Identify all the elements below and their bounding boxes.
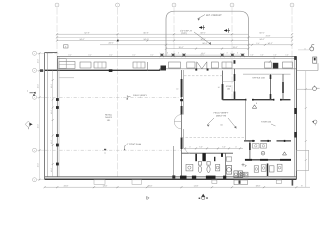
marker triangle 3 <box>283 152 287 155</box>
svg-text:30'-0": 30'-0" <box>200 38 205 41</box>
svg-text:4" CONC SLAB: 4" CONC SLAB <box>127 143 142 146</box>
vestibule fixture box <box>58 59 66 69</box>
svg-text:B: B <box>34 69 35 72</box>
elevation marker 2 <box>313 120 317 124</box>
left wall pilaster 5 <box>56 163 59 166</box>
canopy keynote arrow 1 <box>199 27 205 29</box>
svg-text:30'-0": 30'-0" <box>37 83 40 88</box>
floor drain box <box>239 171 243 178</box>
top wall second line <box>57 58 296 60</box>
window W7 <box>211 62 218 68</box>
br wall y160 darks <box>245 159 252 161</box>
canopy column 4 <box>221 54 224 57</box>
br fixture 1 <box>254 166 258 172</box>
bottom stoop box mid 3 <box>276 180 281 183</box>
svg-text:24'-0": 24'-0" <box>259 38 264 41</box>
interior wall main vertical <box>181 70 183 177</box>
svg-text:E: E <box>34 178 35 181</box>
grid bubble A <box>33 51 37 55</box>
br wall y141 <box>244 140 291 142</box>
restroom dim row <box>183 147 243 149</box>
br fixture 4 <box>277 164 282 171</box>
double door to retail <box>174 115 181 130</box>
mop sink <box>234 171 238 178</box>
bottom dim row 1 <box>45 186 310 188</box>
top wall jamb block <box>109 69 113 72</box>
right sidewalk line <box>305 71 307 187</box>
svg-text:24'-0": 24'-0" <box>79 38 84 41</box>
svg-text:5'-4": 5'-4" <box>256 42 260 45</box>
left keynote flag 2 <box>25 121 31 127</box>
svg-text:DIM (TYP): DIM (TYP) <box>216 114 227 117</box>
svg-text:24'-0": 24'-0" <box>108 42 113 45</box>
bottom stoop box mid 1 <box>212 180 217 183</box>
right leader line 1 <box>296 88 312 90</box>
bottom wall outer face <box>45 178 297 180</box>
toilet left <box>198 162 201 166</box>
bottom wall end tick <box>292 180 294 186</box>
br partition <box>267 164 269 177</box>
canopy outline <box>166 11 249 56</box>
window W1 <box>59 62 75 69</box>
left wall cavity line <box>46 53 48 177</box>
svg-text:SALES: SALES <box>105 116 112 119</box>
br wall x250 <box>249 141 251 160</box>
keynote T box <box>64 45 69 48</box>
left wall top jog <box>45 52 58 54</box>
toilet right <box>207 162 210 166</box>
br wall y160 <box>245 159 291 161</box>
canopy column 5 <box>231 54 234 57</box>
svg-text:(TYP): (TYP) <box>181 32 187 35</box>
svg-text:4: 4 <box>232 4 233 7</box>
svg-text:58'-0": 58'-0" <box>202 42 207 45</box>
grid line 4 <box>231 8 233 100</box>
restroom lav left <box>186 164 193 171</box>
bottom wall inner face <box>45 176 297 178</box>
right wall thick segment 2 <box>294 132 297 138</box>
grid bubble E <box>33 178 37 182</box>
canopy column 1 <box>161 54 164 57</box>
svg-text:2: 2 <box>117 4 118 7</box>
bottom stoop box mid 2 <box>234 180 247 185</box>
office front line <box>243 73 291 75</box>
svg-text:30'-0": 30'-0" <box>37 58 40 63</box>
canopy column 2 <box>172 54 175 57</box>
top right circle flag <box>310 47 314 51</box>
svg-text:8': 8' <box>167 51 169 54</box>
left wall furring line <box>58 56 60 177</box>
br jambs <box>252 140 254 142</box>
svg-text:12'-6": 12'-6" <box>50 167 53 172</box>
window W3 <box>94 62 106 68</box>
grid line 1 <box>56 8 58 57</box>
dimension line top row 2 <box>57 36 292 38</box>
svg-text:24'-0": 24'-0" <box>143 38 148 41</box>
svg-text:D: D <box>34 149 36 152</box>
elevation marker 1 <box>313 87 317 91</box>
svg-text:STOR: STOR <box>226 85 232 88</box>
north marker <box>201 194 205 197</box>
grid bubble 4 <box>230 3 234 7</box>
restroom jamb 3 <box>221 153 223 157</box>
svg-text:30'-0": 30'-0" <box>37 162 40 167</box>
canopy keynote arrow 2 <box>224 30 230 32</box>
svg-text:18'-0": 18'-0" <box>256 184 261 187</box>
svg-text:OFFICE 103: OFFICE 103 <box>252 77 265 80</box>
dimension line canopy width <box>100 44 292 46</box>
window W6 <box>187 62 195 68</box>
bottom door stoop 1 <box>94 180 105 185</box>
grid bubble 2 <box>116 3 120 7</box>
svg-text:56'-8": 56'-8" <box>143 31 148 34</box>
restroom lav right <box>216 164 220 171</box>
svg-text:12'-6": 12'-6" <box>50 83 53 88</box>
grid line B <box>37 69 45 71</box>
svg-text:13'-0": 13'-0" <box>232 46 237 49</box>
svg-text:8': 8' <box>227 51 229 54</box>
svg-text:12'-6": 12'-6" <box>50 139 53 144</box>
restroom top wall <box>182 152 234 154</box>
br fixture 3 <box>269 166 274 172</box>
br counter <box>253 144 260 149</box>
left interior dim string <box>52 71 54 177</box>
entry door jamb blocks <box>195 68 197 70</box>
svg-text:30'-0": 30'-0" <box>37 123 40 128</box>
svg-text:5: 5 <box>292 4 293 7</box>
grid bubble 5 <box>290 3 294 7</box>
top wall inner face thick <box>45 69 160 71</box>
svg-text:RETAIL: RETAIL <box>105 114 113 117</box>
small marker bottom right <box>147 197 150 200</box>
right stoop outline <box>296 70 318 72</box>
svg-text:EF: EF <box>262 152 264 155</box>
bottom door stoop 2 <box>132 180 142 185</box>
corridor wall horizontal <box>223 99 291 101</box>
left wall pilaster 4 <box>56 144 59 147</box>
svg-text:10: 10 <box>176 87 178 90</box>
svg-text:62'-8": 62'-8" <box>84 31 89 34</box>
grid bubble 1 <box>55 3 59 7</box>
grid line E <box>37 179 45 181</box>
left keynote flag 1 <box>30 92 33 94</box>
svg-text:10: 10 <box>218 86 220 89</box>
stor east wall <box>234 69 236 100</box>
br fixture 2 <box>261 165 266 171</box>
interior wall main thick segment <box>181 79 183 97</box>
grid line A <box>37 52 58 54</box>
svg-text:12'-0": 12'-0" <box>103 184 108 187</box>
svg-text:14'-2": 14'-2" <box>267 42 272 45</box>
top wall dark chunk <box>273 63 279 69</box>
stor wall vertical <box>222 71 224 100</box>
grid line D <box>37 149 45 151</box>
restroom jamb 2 <box>214 157 215 161</box>
svg-text:12'-6": 12'-6" <box>50 109 53 114</box>
transformer pad <box>313 57 317 63</box>
window W10 <box>283 62 293 68</box>
marker triangle 1 <box>252 105 256 108</box>
right pad bottom <box>296 150 308 170</box>
svg-text:8': 8' <box>237 51 239 54</box>
svg-text:21'-8": 21'-8" <box>266 35 271 38</box>
br small rooms left <box>240 172 244 177</box>
svg-text:24'-0": 24'-0" <box>64 184 69 187</box>
restroom jamb 1 <box>195 154 197 161</box>
grid bubble B <box>33 68 37 72</box>
svg-text:15: 15 <box>220 124 223 127</box>
window W2 <box>80 62 91 68</box>
dimension line top row 3 <box>57 40 249 42</box>
svg-text:102: 102 <box>227 88 231 91</box>
canopy column tie line <box>160 54 245 56</box>
svg-text:FIELD VERIFY: FIELD VERIFY <box>214 112 229 115</box>
window W8 <box>222 62 232 68</box>
restroom door swing <box>186 149 191 154</box>
canopy right dim ticks <box>251 44 253 46</box>
svg-text:14'-6": 14'-6" <box>194 184 199 187</box>
ceiling marker cross <box>242 163 247 166</box>
left wall pilaster 1 <box>56 98 59 101</box>
svg-text:5'-0": 5'-0" <box>199 146 203 149</box>
grid line 5 <box>291 8 293 70</box>
soffit dashed line <box>184 75 223 77</box>
svg-text:C: C <box>34 96 36 99</box>
left wall inner face <box>56 56 58 177</box>
svg-text:58'-0": 58'-0" <box>200 31 205 34</box>
dimension line canopy sub <box>166 48 249 50</box>
ceiling dashed line <box>182 137 246 139</box>
window W4 <box>133 62 145 68</box>
interior ledge line <box>59 77 74 79</box>
corridor wall gaps <box>246 99 252 101</box>
restroom plumbing wall <box>202 153 205 161</box>
br ef circle <box>261 151 265 155</box>
svg-text:60'-0": 60'-0" <box>259 31 264 34</box>
stor door header <box>223 80 235 82</box>
svg-text:19'-8": 19'-8" <box>201 52 206 55</box>
window W9 <box>265 62 272 68</box>
dimension line top row 1 <box>57 33 249 35</box>
wall chunk east of vestibule <box>161 66 167 71</box>
grid bubble 3 <box>172 3 176 7</box>
canopy column 6 <box>241 54 244 57</box>
svg-text:STOR 106: STOR 106 <box>261 121 272 124</box>
left wall outer face <box>44 53 46 180</box>
water heater <box>226 166 231 175</box>
grid line C <box>37 96 45 98</box>
window dividers <box>97 62 99 68</box>
canopy column 3 <box>183 54 186 57</box>
vestibule stub wall <box>147 62 149 71</box>
grid bubble D <box>33 148 37 152</box>
right wall thick segment 1 <box>294 108 297 114</box>
grid bubble C <box>33 95 37 99</box>
svg-text:W.P. CONDUIT: W.P. CONDUIT <box>206 14 222 17</box>
svg-text:8': 8' <box>178 51 180 54</box>
svg-text:1/2" EXP JT: 1/2" EXP JT <box>180 30 192 33</box>
entry double door <box>197 62 207 69</box>
top wall inner face right <box>160 68 296 70</box>
svg-text:A: A <box>34 52 35 55</box>
corridor door jambs <box>245 99 246 101</box>
wh shelf <box>226 157 231 161</box>
window W5 <box>169 62 181 68</box>
br wall gaps <box>255 140 261 142</box>
svg-text:101: 101 <box>107 119 111 122</box>
grid B wall tick <box>40 69 43 72</box>
left outer dim line <box>39 53 41 179</box>
svg-text:4: 4 <box>27 90 28 93</box>
top wall outer face <box>57 55 296 57</box>
grid line 2 <box>117 8 119 177</box>
svg-text:15'-0": 15'-0" <box>178 46 183 49</box>
right wall inner face <box>294 56 296 177</box>
left wall pilaster 3 <box>56 134 59 137</box>
svg-text:6: 6 <box>256 102 257 105</box>
wh room wall <box>225 153 227 176</box>
right wall outer face <box>295 56 297 179</box>
svg-text:30'-0": 30'-0" <box>148 184 153 187</box>
grid row C interior <box>45 96 181 98</box>
svg-text:5'-0": 5'-0" <box>222 146 226 149</box>
grid line 3 <box>173 8 175 59</box>
grid row D interior <box>45 149 181 151</box>
office wall 2 <box>282 74 284 100</box>
svg-text:11: 11 <box>104 151 106 154</box>
chase wall <box>173 146 175 177</box>
restroom bottom darks <box>180 176 187 179</box>
svg-text:1: 1 <box>57 4 58 7</box>
office wall 1 <box>270 74 272 100</box>
svg-text:8': 8' <box>301 184 303 187</box>
svg-text:3: 3 <box>174 4 175 7</box>
kitchen west wall <box>245 100 247 141</box>
left wall pilaster 2 <box>56 106 59 109</box>
